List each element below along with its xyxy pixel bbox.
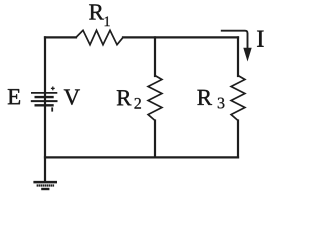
wire: top left segment (node A to R1) [45, 36, 76, 38]
wire: left vertical (battery branch) [44, 37, 46, 181]
battery plus polarity mark [51, 87, 55, 91]
wire: right vertical bottom (from R3) [237, 121, 239, 158]
wire: bottom return [45, 156, 238, 158]
current I arrowhead [243, 48, 251, 62]
label I (current) [257, 31, 263, 47]
battery minus polarity mark [51, 107, 53, 111]
label V (voltage) [64, 89, 80, 104]
label R3 'R' [197, 90, 212, 105]
wire: top segment from R1 to top-right corner [123, 36, 238, 38]
wire: R2 branch bottom [154, 121, 156, 158]
resistor R1 [76, 30, 123, 44]
resistor R2 [148, 76, 162, 121]
label R2 subscript 2 [135, 98, 141, 109]
resistor R3 [231, 76, 245, 121]
wire: R2 branch top [154, 37, 156, 76]
battery E plates [31, 93, 58, 105]
label R2 'R' [117, 90, 132, 105]
current I indicator wire hook [221, 31, 248, 49]
wire: right vertical top (to R3) [237, 37, 239, 76]
label R3 subscript 3 [218, 98, 225, 109]
label R1 subscript 1 [105, 17, 110, 27]
label E (battery EMF) [8, 89, 20, 104]
ground symbol [33, 182, 57, 189]
label R1 'R' [89, 4, 104, 19]
